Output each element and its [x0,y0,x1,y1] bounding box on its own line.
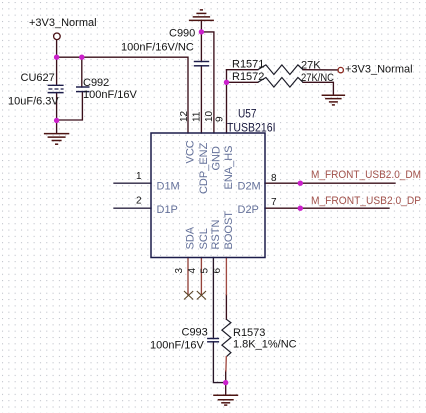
svg-text:ENA_HS: ENA_HS [223,145,235,189]
svg-text:7: 7 [271,197,277,208]
svg-text:D1M: D1M [157,181,180,193]
svg-text:C990: C990 [169,28,195,40]
svg-text:D2P: D2P [238,204,259,216]
svg-text:GND: GND [210,146,222,171]
svg-text:10uF/6.3V: 10uF/6.3V [8,96,59,108]
svg-text:11: 11 [192,111,203,122]
svg-text:D1P: D1P [157,204,178,216]
svg-text:6: 6 [212,268,223,274]
svg-text:1: 1 [136,171,142,182]
svg-text:100nF/16V: 100nF/16V [83,89,137,101]
svg-text:TUSB216I: TUSB216I [227,123,276,135]
svg-text:D2M: D2M [238,181,261,193]
svg-text:4: 4 [187,268,198,274]
svg-text:BOOST: BOOST [223,211,235,250]
svg-text:12: 12 [179,110,190,122]
svg-text:R1571: R1571 [232,59,264,71]
svg-text:8: 8 [271,173,277,184]
svg-text:C993: C993 [182,327,208,339]
svg-text:100nF/16V: 100nF/16V [150,340,204,352]
svg-text:CDP_ENZ: CDP_ENZ [198,142,210,194]
svg-text:1.8K_1%/NC: 1.8K_1%/NC [233,338,297,350]
svg-text:R1573: R1573 [233,327,265,339]
svg-text:27K: 27K [301,60,321,72]
svg-text:M_FRONT_USB2.0_DM: M_FRONT_USB2.0_DM [311,169,421,181]
svg-text:U57: U57 [238,109,257,121]
svg-text:9: 9 [215,116,226,122]
svg-text:CU627: CU627 [21,72,55,84]
svg-text:R1572: R1572 [232,71,264,83]
svg-text:M_FRONT_USB2.0_DP: M_FRONT_USB2.0_DP [311,195,421,207]
svg-text:+3V3_Normal: +3V3_Normal [345,64,413,76]
svg-text:RSTN: RSTN [210,220,222,250]
svg-text:SCL: SCL [198,228,210,249]
svg-text:5: 5 [200,268,211,274]
svg-text:2: 2 [136,196,142,207]
svg-text:10: 10 [204,110,215,122]
svg-text:SDA: SDA [185,226,197,249]
svg-text:27K/NC: 27K/NC [301,72,334,84]
svg-text:+3V3_Normal: +3V3_Normal [29,17,97,29]
svg-text:100nF/16V/NC: 100nF/16V/NC [121,42,194,54]
svg-text:C992: C992 [83,77,109,89]
svg-text:VCC: VCC [185,140,197,163]
svg-text:3: 3 [174,268,185,274]
